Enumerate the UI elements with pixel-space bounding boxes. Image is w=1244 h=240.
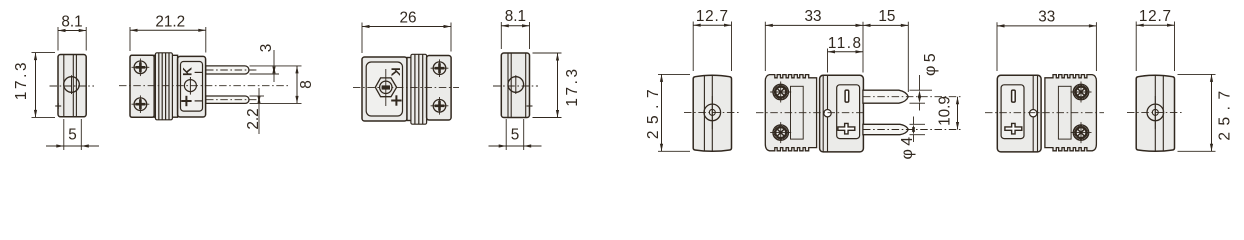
A2 polarity minus dash: [195, 71, 203, 73]
svg-text:3: 3: [258, 44, 275, 53]
svg-text:21.2: 21.2: [155, 13, 185, 30]
A1 side screw tab: [55, 105, 61, 107]
miniature plug A2: [119, 13, 315, 134]
dimension 12.7 (B4 width): [1135, 22, 1137, 72]
A2 horizontal centerline: [119, 85, 290, 87]
A3 horizontal centerline: [353, 86, 459, 88]
A3 rear block: [427, 56, 452, 121]
B3 front assembly: [997, 75, 1041, 152]
A2 clamp screw bottom: [134, 98, 147, 111]
A4 screw circle: [508, 77, 524, 93]
miniature socket A3: [353, 10, 459, 125]
standard socket B3: [985, 9, 1104, 152]
svg-text:K: K: [388, 67, 402, 76]
A3 rear screw bottom: [433, 100, 446, 113]
B2 clamp screw bottom (knurled): [773, 125, 789, 141]
A3 front section: [362, 57, 407, 121]
standard plug B2: [756, 8, 962, 160]
svg-text:17.3: 17.3: [13, 60, 30, 100]
dimension 8.1 (A1 width): [57, 27, 59, 51]
dimension 26 (A3 length): [361, 23, 363, 54]
A4 horizontal centerline: [493, 85, 538, 87]
B2 top pin centerline: [863, 96, 962, 98]
A2 polarity plus: [181, 100, 191, 102]
A4 step line: [525, 53, 527, 117]
dimension 21.2 (A2 length): [129, 27, 131, 51]
A3 screw slot: [382, 85, 390, 89]
A2 top blade centerline: [206, 69, 258, 71]
A2 front section: [178, 56, 206, 117]
A1 screw cross: [71, 75, 73, 94]
dimension 5 (A1 face width): [63, 119, 65, 150]
svg-text:15: 15: [878, 8, 895, 25]
A4 side screw tab: [527, 105, 533, 107]
B1 vertical center line: [711, 75, 713, 151]
A2 rib section: [154, 55, 177, 117]
dimension 11.8 (front block width): [827, 49, 829, 73]
svg-text:25.7: 25.7: [645, 83, 662, 139]
A3 polarity plus: [391, 100, 401, 102]
dimension 17.3 (A4 height): [533, 52, 562, 54]
svg-text:5: 5: [511, 127, 520, 144]
B2 top pin (phi5): [863, 90, 908, 103]
svg-text:12.7: 12.7: [696, 8, 729, 25]
dimension 33 (B3 length): [996, 22, 998, 71]
B2 flange lines: [822, 76, 824, 152]
B2 blade slot: [845, 90, 849, 102]
B2 bottom pin (phi4): [863, 124, 908, 134]
svg-text:2.2: 2.2: [245, 108, 262, 129]
B3 plus slot: [1005, 123, 1022, 134]
dimension 33 (B2 body length): [764, 22, 766, 71]
dimension phi4 (bottom pin dia): [910, 123, 926, 125]
A4 latch lines: [507, 53, 509, 117]
B1 screw circle: [704, 104, 721, 121]
dimension 25.7 (B4 height): [1178, 73, 1216, 75]
B2 clamp boss between screws: [791, 86, 804, 139]
A3 rib section: [407, 58, 427, 121]
B3 clamp boss between screws: [1058, 86, 1071, 139]
svg-text:33: 33: [1038, 9, 1055, 26]
B2 bottom pin centerline: [863, 129, 962, 131]
svg-text:33: 33: [804, 8, 821, 25]
dimension phi5 (top pin dia): [910, 89, 933, 91]
B2 horizontal centerline: [756, 112, 866, 114]
svg-text:25.7: 25.7: [1216, 84, 1233, 140]
dimension 8 (blade spacing): [250, 102, 302, 104]
A2 bottom contact dash: [195, 100, 203, 102]
A3 screw circle: [380, 81, 392, 93]
A3 hex nut: [375, 78, 396, 97]
standard socket side view B4: [1127, 8, 1233, 151]
svg-text:φ5: φ5: [922, 50, 939, 76]
B3 blade slot: [1012, 90, 1016, 102]
B4 crosshair: [1154, 96, 1156, 129]
dimension 10.9 (pin spacing): [957, 97, 959, 130]
B2 front assembly: [820, 75, 864, 152]
B1 inner edge line: [703, 76, 705, 151]
dimension 12.7 (B1 width): [692, 22, 694, 72]
A2 top blade: [206, 66, 249, 74]
miniature socket side view A4: [489, 8, 581, 150]
B2 serrated clamp block: [765, 75, 816, 151]
miniature plug side view A1: [13, 14, 99, 150]
dimension 25.7 (B1 height): [658, 73, 690, 75]
B4 screw circle: [1147, 104, 1164, 121]
svg-text:26: 26: [399, 10, 416, 27]
A2 left clamp block: [130, 55, 154, 117]
B3 front inner rect: [1001, 85, 1024, 139]
dimension 2.2 (bottom blade width): [250, 95, 265, 97]
svg-text:K: K: [180, 67, 194, 76]
B3 horizontal centerline: [985, 112, 1104, 114]
A2 bottom blade centerline: [206, 99, 258, 101]
A2 clamp screw top: [134, 61, 147, 74]
A3 front inner rect: [366, 62, 402, 116]
B1 crosshair: [711, 96, 713, 129]
A3 screw centerline: [385, 69, 387, 106]
A1 step line: [63, 55, 65, 117]
B3 clamp screw bottom (knurled): [1073, 125, 1089, 141]
B2 clamp screw top (knurled): [773, 84, 789, 100]
dimension 17.3 (A1 height): [32, 52, 56, 54]
B4 inner edge line: [1162, 76, 1164, 151]
dimension 3 (top blade width): [250, 65, 302, 67]
B3 guide circle: [1030, 110, 1037, 117]
A2 front inner rect: [181, 62, 203, 112]
dimension 5 (A4 face width): [505, 119, 507, 150]
svg-text:12.7: 12.7: [1139, 8, 1172, 25]
B3 clamp screw top (knurled): [1073, 84, 1089, 100]
B3 flange lines: [1037, 76, 1039, 152]
A1 horizontal centerline: [50, 85, 95, 87]
standard plug side view B1: [645, 8, 741, 151]
svg-text:10.9: 10.9: [937, 96, 954, 126]
B4 vertical center line: [1154, 75, 1156, 151]
svg-text:8.1: 8.1: [505, 8, 526, 25]
svg-text:8: 8: [298, 80, 315, 89]
svg-text:5: 5: [68, 127, 77, 144]
svg-text:17.3: 17.3: [564, 66, 581, 106]
A1 latch lines: [72, 55, 74, 117]
A3 rib bars: [411, 54, 427, 124]
dimension 8.1 (A4 width): [500, 22, 502, 49]
A3 rear screw top: [433, 62, 446, 75]
B2 plus slot: [838, 123, 855, 134]
A2 rib bars: [155, 53, 172, 120]
A2 center circle: [184, 80, 196, 92]
A2 bottom blade: [206, 96, 249, 103]
svg-text:8.1: 8.1: [61, 14, 82, 31]
B2 front inner rect: [837, 85, 860, 139]
dimension 15 (pin length): [907, 22, 909, 92]
svg-text:φ4: φ4: [899, 133, 916, 159]
A1 screw circle: [64, 77, 80, 93]
svg-text:11.8: 11.8: [828, 35, 863, 52]
B3 serrated clamp block: [1045, 75, 1097, 151]
B2 guide circle: [824, 110, 831, 117]
